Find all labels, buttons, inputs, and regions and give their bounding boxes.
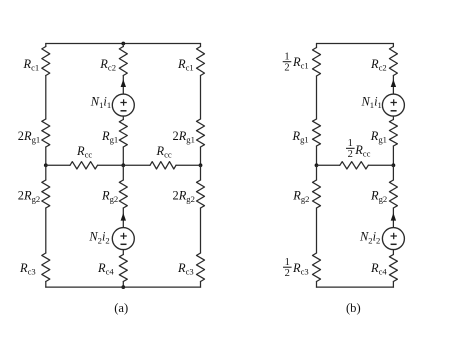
node right mid junction (a) — [199, 163, 203, 167]
wire mid rail to Rg2 (a) — [122, 165, 124, 180]
resistor Rg1 (b) left — [313, 119, 321, 146]
wire left branch lower (b) — [316, 208, 318, 253]
node top-middle junction (a) — [121, 42, 125, 46]
wire right branch to bottom rail (a) — [200, 282, 202, 288]
resistor half-Rcc (b) — [340, 162, 369, 169]
resistor 2Rg2 (a) right — [197, 180, 205, 208]
label one-half of half-Rc3 (b) — [283, 257, 292, 279]
wire left branch to bottom rail (a) — [45, 282, 47, 288]
label one-half of half-Rc1 (b) — [283, 51, 292, 73]
wire source N1i1 to Rg1 (b) — [392, 116, 394, 119]
resistor Rg2 (b) left — [313, 180, 321, 208]
wire mid rail center-left segment (a) — [98, 164, 124, 166]
resistor Rc4 (b) — [389, 255, 397, 282]
resistor Rc4 (a) — [119, 255, 127, 282]
svg-text:(b): (b) — [346, 301, 361, 315]
wire mid rail right segment (a) — [176, 164, 201, 166]
resistor 2Rg2 (a) left — [42, 180, 50, 208]
wire left branch upper (b) — [316, 76, 318, 119]
wire mid rail left segment (b) — [317, 164, 340, 166]
resistor Rc2 (b) — [389, 47, 397, 76]
wire left branch lower (a) — [45, 208, 47, 253]
resistor Rg1 (a) — [119, 120, 127, 148]
resistor half-Rc1 (b) — [313, 48, 321, 77]
wire mid rail right segment (b) — [368, 164, 393, 166]
resistor Rcc (a) left — [70, 162, 98, 169]
wire left branch to mid rail (a) — [45, 147, 47, 165]
wire top rail (a) — [46, 43, 201, 45]
dependent source N1i1 (b) — [382, 94, 404, 116]
resistor Rcc (a) right — [150, 162, 176, 169]
wire left branch to mid rail (b) — [316, 146, 318, 165]
resistor Rc1 (a) right — [197, 47, 205, 76]
arrow current direction into N2i2 (a) — [121, 213, 126, 221]
node middle mid junction (a) — [121, 163, 125, 167]
resistor Rg1 (b) right — [389, 120, 397, 147]
resistor Rc3 (a) left — [42, 253, 50, 282]
resistor half-Rc3 (b) — [313, 253, 321, 282]
node bottom-middle junction (a) — [121, 285, 125, 289]
svg-text:1: 1 — [285, 257, 290, 268]
wire left branch to bottom rail (b) — [316, 282, 318, 288]
wire mid rail left segment (a) — [46, 164, 70, 166]
svg-text:2: 2 — [284, 62, 289, 73]
dependent source N1i1 (a) — [112, 94, 134, 116]
arrow current direction into N1i1 (b) — [391, 79, 396, 87]
svg-text:2: 2 — [285, 268, 290, 279]
wire mid rail to Rg2 (b) — [392, 165, 394, 180]
svg-text:(a): (a) — [114, 301, 128, 315]
dependent source N2i2 (b) — [382, 228, 404, 250]
wire top stub middle branch (a) — [122, 44, 124, 47]
resistor 2Rg1 (a) right — [197, 119, 205, 147]
svg-text:1: 1 — [284, 51, 289, 62]
node right mid junction (b) — [392, 163, 396, 167]
resistor Rc3 (a) right — [197, 253, 205, 282]
wire right branch lower (a) — [200, 208, 202, 253]
wire top stub left branch (b) — [316, 44, 318, 48]
wire Rg2 to source N2i2 (a) — [122, 208, 124, 228]
dependent source N2i2 (a) — [112, 228, 134, 250]
resistor Rc2 (a) — [119, 47, 127, 76]
wire Rc4 to bottom rail (a) — [122, 282, 124, 288]
arrow current direction into N2i2 (b) — [391, 213, 396, 221]
wire bottom rail (a) — [46, 286, 201, 288]
svg-text:1: 1 — [348, 138, 353, 149]
wire source N1i1 to Rg1 (a) — [122, 116, 124, 119]
wire top stub right branch (a) — [200, 44, 202, 47]
svg-text:2: 2 — [348, 149, 353, 160]
wire top stub left branch (a) — [45, 44, 47, 47]
wire Rg1 to mid rail (a) — [122, 147, 124, 165]
wire right branch to mid rail (a) — [200, 147, 202, 165]
wire top rail (b) — [317, 43, 394, 45]
node left mid junction (b) — [315, 163, 319, 167]
resistor 2Rg1 (a) left — [42, 119, 50, 147]
wire mid rail center-right segment (a) — [123, 164, 150, 166]
wire source N2i2 to Rc4 (a) — [122, 250, 124, 255]
wire top stub right branch (b) — [392, 44, 394, 47]
node left mid junction (a) — [44, 163, 48, 167]
wire left branch below mid (b) — [316, 165, 318, 180]
wire Rc4 to bottom rail (b) — [392, 282, 394, 288]
resistor Rg2 (a) — [119, 180, 127, 208]
wire Rg1 to mid rail (b) — [392, 146, 394, 165]
resistor Rc1 (a) left — [42, 47, 50, 76]
resistor Rg2 (b) right — [389, 180, 397, 208]
wire right branch below mid (a) — [200, 165, 202, 180]
wire Rc2 to source N1i1 (a) — [122, 76, 124, 95]
label one-half of half-Rcc (b) — [346, 138, 355, 160]
wire left branch upper (a) — [45, 76, 47, 120]
wire source N2i2 to Rc4 (b) — [392, 250, 394, 255]
arrow current direction into N1i1 (a) — [121, 79, 126, 87]
wire left branch below mid (a) — [45, 165, 47, 180]
wire bottom rail (b) — [317, 286, 394, 288]
wire Rg2 to source N2i2 (b) — [392, 208, 394, 228]
wire right branch upper (a) — [200, 76, 202, 120]
wire Rc2 to source N1i1 (b) — [392, 76, 394, 95]
